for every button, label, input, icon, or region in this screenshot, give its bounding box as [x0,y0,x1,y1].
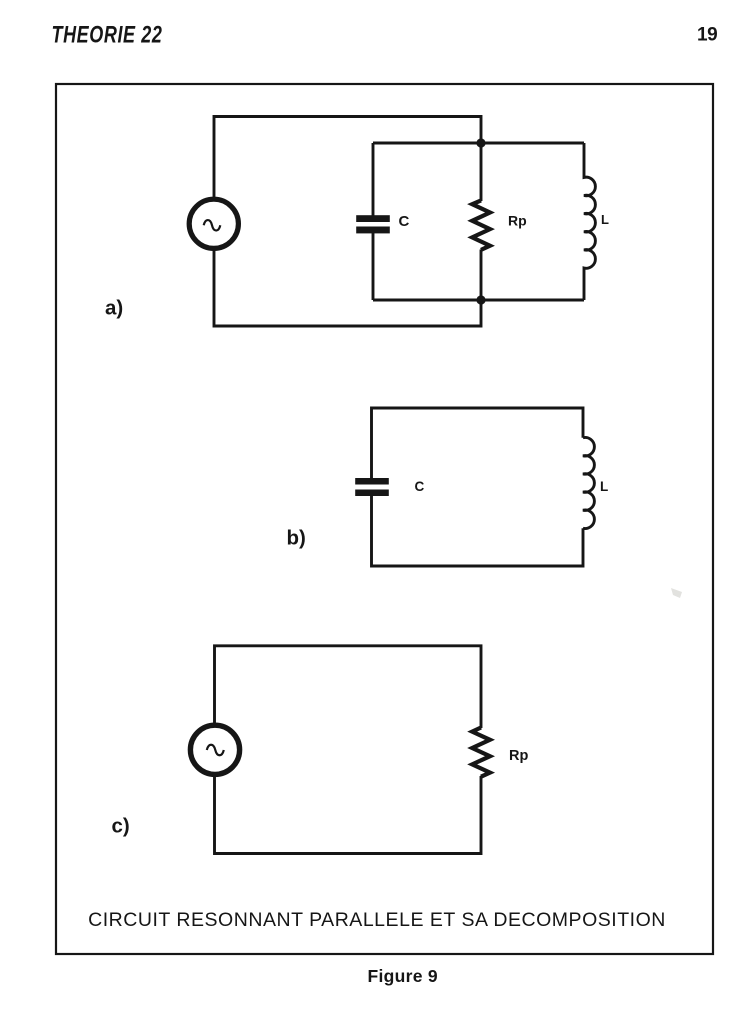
wire: resistor Rp leads (circuit a) [480,143,483,300]
inductor L (circuit b) [583,437,594,528]
AC source V (circuit c) [190,725,239,774]
capacitor C (circuit a) [356,215,390,233]
svg-text:c): c) [112,815,130,838]
svg-text:19: 19 [697,24,717,45]
svg-text:THEORIE 22: THEORIE 22 [52,22,163,48]
svg-text:CIRCUIT RESONNANT PARALLELE ET: CIRCUIT RESONNANT PARALLELE ET SA DECOMP… [88,909,666,931]
node: top junction (circuit a) [476,138,485,147]
svg-text:Rp: Rp [509,748,528,764]
svg-text:L: L [601,212,609,227]
svg-text:Rp: Rp [508,213,527,229]
wire: capacitor C leads (circuit a) [372,143,375,300]
svg-text:L: L [600,479,608,494]
wire: circuit c loop bottom (source bottom, bottom rail, up to resistor) [215,776,482,854]
inductor L (circuit a) [584,143,595,300]
resistor Rp (circuit c) [472,728,490,777]
svg-text:C: C [399,213,410,230]
wire: circuit a tank top rail [373,142,584,145]
AC source V (circuit a) [189,199,238,248]
wire: circuit a outer loop top (source top, top rail, down to top junction) [214,117,481,198]
wire: circuit c loop top (source top, top rail, down to resistor) [215,646,482,728]
resistor Rp (circuit a) [472,200,490,250]
wire: circuit a tank bottom rail [373,299,584,302]
svg-text:b): b) [287,527,306,550]
svg-text:a): a) [105,297,123,320]
svg-text:C: C [415,479,425,494]
capacitor C (circuit b) [355,478,389,496]
wire: circuit a outer loop bottom (source bottom, bottom rail, up to bottom junction) [214,251,481,327]
svg-text:Figure 9: Figure 9 [368,966,438,986]
wire: circuit b loop (top rail and bottom rail) [372,408,584,566]
node: bottom junction (circuit a) [476,295,485,304]
